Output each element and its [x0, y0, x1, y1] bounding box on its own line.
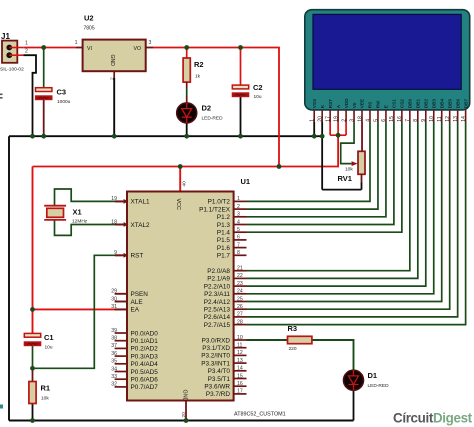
svg-text:ALE: ALE — [131, 299, 143, 306]
svg-text:RST: RST — [131, 253, 144, 260]
svg-text:11: 11 — [437, 116, 443, 121]
svg-text:P1.0/T2: P1.0/T2 — [208, 199, 231, 206]
svg-text:P2.4/A12: P2.4/A12 — [204, 299, 231, 306]
svg-text:DB5: DB5 — [447, 99, 452, 109]
svg-text:P3.6/WR: P3.6/WR — [204, 384, 230, 391]
svg-text:36: 36 — [111, 351, 117, 357]
svg-text:P1.7: P1.7 — [217, 253, 231, 260]
svg-text:16: 16 — [237, 381, 243, 387]
svg-text:CS2: CS2 — [400, 99, 405, 109]
svg-text:16: 16 — [397, 116, 403, 122]
svg-text:9: 9 — [421, 119, 427, 122]
svg-text:P0.7/AD7: P0.7/AD7 — [131, 384, 159, 391]
svg-text:P1.4: P1.4 — [217, 230, 231, 237]
svg-text:25: 25 — [237, 296, 243, 302]
svg-text:DB4: DB4 — [439, 99, 444, 109]
svg-text:E: E — [384, 105, 389, 108]
svg-text:40: 40 — [181, 181, 187, 187]
svg-text:4: 4 — [237, 219, 240, 225]
svg-text:220: 220 — [289, 346, 297, 352]
svg-text:5: 5 — [237, 227, 240, 233]
svg-text:10: 10 — [429, 116, 435, 122]
svg-text:1000u: 1000u — [57, 99, 71, 105]
svg-text:P2.3/A11: P2.3/A11 — [204, 291, 230, 298]
svg-text:31: 31 — [111, 304, 117, 310]
svg-text:LED-RED: LED-RED — [202, 116, 224, 122]
svg-text:EA: EA — [131, 307, 140, 314]
svg-text:R3: R3 — [288, 324, 298, 333]
svg-text:VDD: VDD — [344, 98, 349, 109]
svg-text:29: 29 — [111, 289, 117, 295]
svg-text:P3.4/T0: P3.4/T0 — [208, 368, 231, 375]
svg-text:RST: RST — [328, 99, 333, 109]
svg-text:3: 3 — [237, 212, 240, 218]
svg-text:1: 1 — [75, 40, 78, 46]
svg-text:12: 12 — [237, 350, 243, 356]
svg-text:37: 37 — [111, 343, 117, 349]
svg-text:39: 39 — [111, 328, 117, 334]
svg-text:DB6: DB6 — [455, 99, 460, 109]
svg-text:DB7: DB7 — [463, 99, 468, 109]
svg-text:DB0: DB0 — [408, 99, 413, 109]
svg-text:DB1: DB1 — [416, 99, 421, 109]
svg-text:7805: 7805 — [84, 26, 95, 32]
svg-text:P0.4/AD4: P0.4/AD4 — [131, 361, 159, 368]
svg-text:10k: 10k — [345, 166, 353, 172]
svg-text:32: 32 — [111, 382, 117, 388]
svg-text:GND: GND — [181, 390, 187, 402]
svg-text:R1: R1 — [41, 384, 51, 393]
svg-text:21: 21 — [237, 266, 243, 272]
svg-text:P0.3/AD3: P0.3/AD3 — [131, 353, 159, 360]
svg-text:P0.1/AD1: P0.1/AD1 — [131, 338, 159, 345]
svg-text:12: 12 — [445, 116, 451, 122]
svg-text:10k: 10k — [41, 396, 49, 402]
svg-text:20: 20 — [181, 412, 187, 418]
svg-text:AT89C52_CUSTOM1: AT89C52_CUSTOM1 — [234, 412, 286, 418]
svg-text:P3.5/T1: P3.5/T1 — [208, 376, 231, 383]
svg-text:4: 4 — [365, 119, 371, 122]
svg-text:8: 8 — [237, 250, 240, 256]
svg-text:RW: RW — [376, 100, 381, 108]
svg-text:P2.7/A15: P2.7/A15 — [204, 322, 231, 329]
svg-text:7: 7 — [405, 119, 411, 122]
svg-text:30: 30 — [111, 296, 117, 302]
svg-text:2: 2 — [109, 77, 115, 80]
svg-text:V0: V0 — [352, 102, 357, 108]
svg-text:VEE: VEE — [360, 99, 365, 108]
svg-text:LED-RED: LED-RED — [368, 383, 390, 389]
svg-text:24: 24 — [237, 289, 243, 295]
svg-text:9: 9 — [114, 250, 117, 256]
svg-text:P3.3/INT1: P3.3/INT1 — [201, 360, 230, 367]
svg-text:20: 20 — [317, 116, 323, 122]
svg-text:11: 11 — [237, 343, 242, 349]
svg-text:D1: D1 — [368, 371, 378, 380]
svg-text:15: 15 — [389, 116, 395, 122]
svg-text:2: 2 — [25, 48, 28, 54]
svg-text:P2.2/A10: P2.2/A10 — [204, 283, 231, 290]
svg-text:DB3: DB3 — [431, 99, 436, 109]
svg-text:P1.2: P1.2 — [217, 214, 231, 221]
svg-text:8: 8 — [413, 119, 419, 122]
svg-text:6: 6 — [381, 119, 387, 122]
svg-text:P0.6/AD6: P0.6/AD6 — [131, 377, 159, 384]
svg-text:3: 3 — [349, 119, 355, 122]
svg-text:P1.6: P1.6 — [217, 245, 231, 252]
svg-text:34: 34 — [111, 366, 117, 372]
svg-text:P0.0/AD0: P0.0/AD0 — [131, 330, 159, 337]
svg-text:P1.1/T2EX: P1.1/T2EX — [199, 206, 231, 213]
svg-text:P3.1/TXD: P3.1/TXD — [202, 345, 230, 352]
svg-text:14: 14 — [237, 366, 243, 372]
svg-text:13: 13 — [237, 358, 243, 364]
svg-text:P2.0/A8: P2.0/A8 — [207, 268, 230, 275]
svg-text:12MHz: 12MHz — [72, 218, 88, 224]
svg-text:PSEN: PSEN — [131, 291, 149, 298]
svg-text:XTAL2: XTAL2 — [131, 222, 151, 229]
svg-text:17: 17 — [237, 389, 243, 395]
svg-text:17: 17 — [325, 116, 331, 122]
svg-text:10u: 10u — [45, 345, 53, 351]
svg-text:R2: R2 — [194, 60, 204, 69]
svg-text:28: 28 — [237, 319, 243, 325]
svg-text:SIL-100-02: SIL-100-02 — [0, 67, 24, 73]
svg-text:U1: U1 — [241, 177, 251, 186]
svg-text:2: 2 — [237, 204, 240, 210]
svg-text:38: 38 — [111, 336, 117, 342]
svg-text:P2.1/A9: P2.1/A9 — [207, 276, 230, 283]
svg-text:10: 10 — [237, 335, 243, 341]
svg-text:VSS: VSS — [312, 99, 317, 108]
svg-text:13: 13 — [453, 116, 459, 122]
svg-text:22: 22 — [237, 273, 243, 279]
svg-text:XTAL1: XTAL1 — [131, 199, 151, 206]
svg-text:C2: C2 — [253, 83, 263, 92]
svg-text:19: 19 — [111, 196, 117, 202]
svg-text:7: 7 — [237, 242, 240, 248]
svg-text:C3: C3 — [57, 88, 67, 97]
svg-text:3: 3 — [149, 40, 152, 46]
svg-text:P3.0/RXD: P3.0/RXD — [202, 337, 231, 344]
svg-text:2: 2 — [341, 119, 347, 122]
svg-text:GND: GND — [109, 55, 115, 67]
svg-text:P0.2/AD2: P0.2/AD2 — [131, 346, 159, 353]
svg-text:VCC: VCC — [175, 199, 181, 210]
svg-text:VI: VI — [87, 46, 92, 52]
svg-text:DB2: DB2 — [423, 99, 428, 109]
svg-text:VO: VO — [134, 46, 142, 52]
svg-text:14: 14 — [461, 116, 467, 122]
svg-text:X1: X1 — [73, 208, 82, 217]
svg-text:27: 27 — [237, 312, 243, 318]
svg-text:P3.7/RD: P3.7/RD — [206, 391, 231, 398]
svg-text:6: 6 — [237, 235, 240, 241]
svg-text:1: 1 — [310, 119, 316, 122]
svg-text:26: 26 — [237, 304, 243, 310]
svg-text:19: 19 — [333, 116, 339, 122]
svg-text:10u: 10u — [254, 94, 262, 100]
svg-text:15: 15 — [237, 373, 243, 379]
svg-text:D2: D2 — [202, 104, 212, 113]
svg-text:5: 5 — [373, 119, 379, 122]
svg-text:1: 1 — [25, 41, 28, 47]
svg-text:23: 23 — [237, 281, 243, 287]
svg-text:1k: 1k — [195, 74, 201, 80]
svg-text:RV1: RV1 — [338, 174, 352, 183]
svg-text:P3.2/INT0: P3.2/INT0 — [201, 353, 230, 360]
svg-text:18: 18 — [111, 219, 117, 225]
svg-text:35: 35 — [111, 359, 117, 365]
svg-text:P2.5/A13: P2.5/A13 — [204, 307, 231, 314]
svg-text:1: 1 — [237, 196, 240, 202]
svg-text:P1.5: P1.5 — [217, 237, 231, 244]
svg-text:C1: C1 — [44, 333, 54, 342]
svg-text:P0.5/AD5: P0.5/AD5 — [131, 369, 159, 376]
svg-text:33: 33 — [111, 374, 117, 380]
svg-text:CS1: CS1 — [392, 99, 397, 109]
svg-text:J1: J1 — [1, 32, 10, 41]
svg-text:U2: U2 — [84, 14, 94, 23]
svg-text:RS: RS — [368, 102, 373, 109]
svg-text:CírcuitDigest: CírcuitDigest — [393, 410, 473, 425]
svg-text:P2.6/A14: P2.6/A14 — [204, 314, 231, 321]
svg-text:P1.3: P1.3 — [217, 222, 231, 229]
svg-text:18: 18 — [357, 116, 363, 122]
